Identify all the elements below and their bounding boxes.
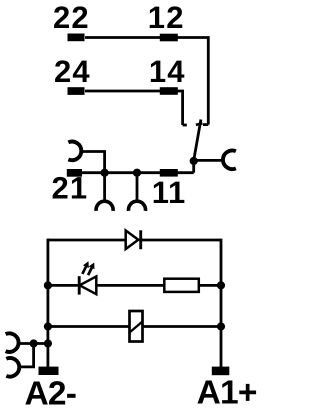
stub from common node down to row wire <box>192 161 195 173</box>
svg-text:14: 14 <box>149 54 186 89</box>
wire 22-12 to contact (top row with right drop) <box>85 38 208 125</box>
wire 24-14 to contact (second row with drop) <box>85 91 183 125</box>
stub down from junction B <box>136 173 139 200</box>
socket arc under junction A <box>96 201 113 211</box>
wire 21-11 row <box>81 171 194 174</box>
wire row2 middle segment <box>96 284 164 287</box>
diode D (suppressor) <box>126 231 139 250</box>
junction dot right row3 <box>217 322 225 330</box>
stub down from junction A <box>103 173 106 200</box>
diode cathode bar <box>139 230 142 249</box>
svg-text:24: 24 <box>54 54 91 89</box>
switch blade tick <box>196 123 203 124</box>
top wire right segment <box>141 239 221 242</box>
terminal 21 <box>67 169 82 177</box>
left vertical rail <box>47 239 50 367</box>
LED cathode bar <box>78 276 81 294</box>
terminal 14 <box>160 87 178 95</box>
terminal 11 <box>160 169 178 177</box>
plug hook above 21 (open left) <box>68 142 81 161</box>
plug hook bottom-left of A2 (open left) <box>6 358 19 377</box>
svg-text:A1+: A1+ <box>197 374 257 408</box>
LED triangle <box>80 276 97 294</box>
terminal 24 <box>68 87 85 95</box>
contact foot of 12 drop <box>203 123 208 126</box>
junction dot right row2 <box>217 281 225 289</box>
wire from common node to right plug hook <box>194 159 223 162</box>
terminal 12 <box>160 34 178 42</box>
wire from 21 hook to first junction <box>82 152 105 173</box>
svg-text:A2-: A2- <box>25 376 77 408</box>
wire row2 right segment <box>199 284 221 287</box>
wire row3 right segment <box>143 325 222 328</box>
svg-text:22: 22 <box>53 0 90 35</box>
coil circuit: top wire left segment <box>48 239 126 242</box>
junction node at common contact <box>190 157 198 165</box>
junction dot B <box>133 169 141 177</box>
terminal 22 <box>68 34 85 42</box>
coil diagonal <box>130 322 143 333</box>
LED arrow 1 <box>82 266 86 274</box>
junction dot left row3 <box>44 322 52 330</box>
socket arc under junction B <box>129 201 146 211</box>
wire row2 left segment <box>48 284 79 287</box>
junction dot A <box>101 169 109 177</box>
svg-text:12: 12 <box>148 0 185 35</box>
junction dot left row2 <box>44 281 52 289</box>
switch blade (movable contact) <box>194 120 201 161</box>
wire row3 left segment <box>48 325 130 328</box>
terminal A2 <box>39 367 59 375</box>
terminal A1 <box>212 367 230 376</box>
plug hook top-left of A2 (open left) <box>6 333 19 352</box>
resistor R <box>164 279 199 292</box>
junction dot on left rail bottom <box>44 339 52 347</box>
drop from hook wire to bottom hook <box>20 344 34 367</box>
junction dot on hook wire <box>29 339 37 347</box>
relay coil K <box>130 311 143 342</box>
wire from top hook to left rail <box>19 342 48 345</box>
contact foot of 14 drop <box>183 124 187 127</box>
svg-text:11: 11 <box>152 175 186 210</box>
right vertical rail <box>220 239 223 367</box>
LED arrow 2 <box>88 267 92 275</box>
plug hook right (open right) <box>223 151 236 170</box>
